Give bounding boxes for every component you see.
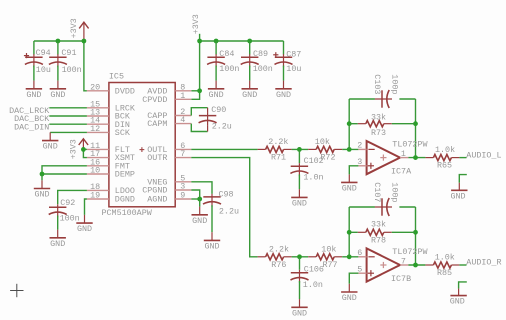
junction rail +3V3 arrow <box>82 39 87 44</box>
svg-text:GND: GND <box>276 90 291 100</box>
pin 16 FMT of IC5 <box>87 157 130 171</box>
svg-text:C91: C91 <box>61 48 76 58</box>
net label DAC_LRCK <box>9 106 50 116</box>
svg-text:C84: C84 <box>219 49 234 59</box>
wire feedback right vertical B <box>415 207 417 265</box>
wire R76 to node R1 <box>292 256 309 258</box>
svg-text:C87: C87 <box>286 49 301 59</box>
wire DGND pin 19 to ground <box>85 199 87 215</box>
capacitor C91 <box>49 48 82 75</box>
wire R85 to AUDIO_R <box>459 264 466 266</box>
wire DAC_DIN to pin 14 <box>49 123 87 125</box>
power +3V3 supply symbol P2 <box>191 14 201 41</box>
wire C91 top lead <box>57 41 59 55</box>
capacitor C84 <box>207 49 239 74</box>
junction FLT XSMT +3V3 <box>81 147 86 152</box>
svg-text:DAC_DIN: DAC_DIN <box>14 122 49 132</box>
junction feedback at pin 2 <box>347 147 352 152</box>
svg-text:100p: 100p <box>389 74 399 94</box>
resistor R71 2.2k <box>258 137 292 163</box>
wire CAPP pin 2 to C90 <box>191 108 207 116</box>
pin 9 AGND of IC5 <box>147 191 191 205</box>
wire R73 right lead joint <box>392 123 416 125</box>
svg-text:10k: 10k <box>321 244 336 254</box>
wire feedback top right A <box>399 98 415 100</box>
wire non-inverting input B to ground <box>349 273 358 284</box>
wire OUTR pin 7 down to R76 <box>191 158 257 257</box>
svg-text:GND: GND <box>292 198 307 208</box>
svg-text:1: 1 <box>401 149 406 159</box>
svg-text:GND: GND <box>50 90 65 100</box>
svg-text:C106: C106 <box>304 265 324 275</box>
pin 11 FLT of IC5 <box>87 141 130 155</box>
svg-text:1.0k: 1.0k <box>435 253 455 263</box>
svg-text:2.2k: 2.2k <box>268 137 288 147</box>
svg-text:GND: GND <box>50 239 65 249</box>
net label DAC_BCK <box>14 114 50 124</box>
svg-text:IC5: IC5 <box>109 71 124 81</box>
wire op-amp B output <box>408 264 425 266</box>
node L1 junction <box>297 147 302 152</box>
ground GND below C102 <box>291 174 307 208</box>
svg-text:R76: R76 <box>271 260 286 270</box>
svg-text:DEMP: DEMP <box>115 170 135 180</box>
wire feedback left vertical A <box>348 99 350 149</box>
wire non-inverting input A to ground <box>349 166 358 175</box>
svg-text:12: 12 <box>90 124 100 134</box>
net label AUDIO_L <box>466 150 501 160</box>
svg-text:C90: C90 <box>211 105 226 115</box>
svg-text:GND: GND <box>204 241 219 251</box>
pin 5 VNEG of IC5 <box>147 173 191 187</box>
ground GND on SCK <box>42 132 58 151</box>
pin 6 OUTL of IC5 <box>147 141 191 155</box>
wire OUTL pin 6 to R71 <box>191 148 257 150</box>
wire R71 to node L1 <box>292 148 309 150</box>
wire DEMP pin 10 to ground <box>42 173 87 175</box>
junction AVDD pin 8 <box>197 88 202 93</box>
capacitor C103 100p <box>372 74 400 108</box>
sheet origin cross marker <box>10 284 23 297</box>
resistor R65 1.0k <box>425 145 459 171</box>
svg-text:GND: GND <box>34 190 49 200</box>
junction R78 left <box>347 230 352 235</box>
wire C94 top lead <box>33 41 35 55</box>
pin 12 SCK of IC5 <box>87 124 131 138</box>
pin 2 CAPP of IC5 <box>147 107 191 121</box>
svg-text:C103: C103 <box>372 74 382 94</box>
wire FLT pin 11 <box>83 148 87 150</box>
capacitor C92 <box>49 198 80 224</box>
op-amp IC7B TL072PW <box>357 247 428 284</box>
ground GND on IC7A pin 3 <box>341 174 357 193</box>
resistor R77 10k <box>308 244 342 270</box>
wire feedback top right B <box>399 206 415 208</box>
capacitor C98 <box>203 190 239 217</box>
wire feedback top left A <box>349 98 375 100</box>
wire +3V3 rail left <box>34 40 84 42</box>
svg-text:GND: GND <box>26 90 41 100</box>
svg-text:R65: R65 <box>437 161 452 171</box>
wire R73 left lead joint <box>349 123 358 125</box>
svg-text:AUDIO_L: AUDIO_L <box>466 150 501 160</box>
svg-text:19: 19 <box>90 191 100 201</box>
svg-text:7: 7 <box>180 149 185 159</box>
wire AVDD pin 8 branch <box>191 90 199 92</box>
junction FMT DEMP <box>40 172 45 177</box>
ground GND below C98 <box>204 205 220 251</box>
svg-text:1: 1 <box>180 91 185 101</box>
wire FMT pin 16 to ground <box>42 166 87 174</box>
svg-text:CPVDD: CPVDD <box>142 95 167 105</box>
svg-text:2: 2 <box>357 141 362 151</box>
wire CPGND pin 3 to ground <box>191 190 199 199</box>
capacitor C106 <box>291 257 324 290</box>
svg-text:+3V3: +3V3 <box>68 139 78 159</box>
svg-text:C94: C94 <box>36 48 51 58</box>
capacitor C94 <box>24 48 51 75</box>
svg-text:C98: C98 <box>219 190 234 200</box>
svg-text:4: 4 <box>180 115 185 125</box>
svg-text:R72: R72 <box>320 153 335 163</box>
svg-text:AUDIO_R: AUDIO_R <box>466 258 501 268</box>
svg-text:SCK: SCK <box>115 128 131 138</box>
wire R77 to op-amp inverting input B <box>342 256 358 258</box>
wire XSMT pin 17 to +3V3 <box>83 149 87 157</box>
svg-text:GND: GND <box>192 216 207 226</box>
svg-text:GND: GND <box>209 90 224 100</box>
pin 13 BCK of IC5 <box>87 108 131 122</box>
capacitor C102 <box>290 149 323 182</box>
ground GND stub near AUDIO_L <box>450 175 467 202</box>
capacitor C89 <box>241 49 273 74</box>
pin 3 CPGND of IC5 <box>142 182 191 196</box>
svg-text:33k: 33k <box>371 112 386 122</box>
svg-text:2.2k: 2.2k <box>269 244 289 254</box>
ground GND below C106 <box>291 281 307 318</box>
wire feedback top left B <box>349 206 375 208</box>
pin 18 LDOO of IC5 <box>87 182 135 196</box>
svg-text:10u: 10u <box>286 64 301 74</box>
capacitor C87 <box>273 49 301 73</box>
svg-text:TL072PW: TL072PW <box>392 247 428 257</box>
svg-text:1.0n: 1.0n <box>303 173 323 183</box>
wire feedback right vertical A <box>415 99 417 158</box>
pin 4 CAPM of IC5 <box>147 115 191 129</box>
junction R73 left <box>347 121 352 126</box>
svg-text:9: 9 <box>180 191 185 201</box>
wire SCK pin 12 to ground <box>50 131 87 133</box>
wire R72 to op-amp inverting input <box>342 148 358 150</box>
capacitor C90 <box>199 105 232 132</box>
wire C84 top lead <box>215 41 217 55</box>
svg-text:7: 7 <box>401 256 406 266</box>
ground GND on DGND <box>76 215 92 234</box>
svg-text:100n: 100n <box>219 64 239 74</box>
junction output B feedback <box>413 263 418 268</box>
ground GND below C89 <box>242 66 258 100</box>
wire C87 top lead <box>283 41 285 55</box>
svg-text:100n: 100n <box>253 64 273 74</box>
wire DAC_LRCK to pin 15 <box>49 107 87 109</box>
pin 14 DIN of IC5 <box>87 116 130 130</box>
svg-text:1.0k: 1.0k <box>435 145 455 155</box>
svg-text:R73: R73 <box>371 128 386 138</box>
junction output A feedback <box>413 155 418 160</box>
svg-text:100p: 100p <box>389 182 399 202</box>
svg-text:2.2u: 2.2u <box>219 207 239 217</box>
ground GND below C94 <box>26 66 42 100</box>
svg-text:10k: 10k <box>315 137 330 147</box>
wire DAC_BCK to pin 13 <box>49 115 87 117</box>
ground GND below C92 <box>50 216 66 249</box>
wire LDOO pin 18 to C92 <box>58 190 87 204</box>
wire op-amp A output <box>408 157 425 159</box>
wire feedback left vertical B <box>348 207 350 257</box>
wire R78 right lead joint <box>392 231 416 233</box>
svg-text:33k: 33k <box>371 220 386 230</box>
wire +3V3 rail middle <box>200 40 284 42</box>
svg-text:CAPM: CAPM <box>147 119 167 129</box>
svg-text:TL072PW: TL072PW <box>392 140 428 150</box>
svg-text:GND: GND <box>77 224 92 234</box>
wire R78 left lead joint <box>349 231 358 233</box>
svg-text:100n: 100n <box>62 65 82 75</box>
capacitor C107 100p <box>372 182 400 216</box>
pin 20 DVDD of IC5 <box>87 82 135 96</box>
power +3V3 supply symbol P3 on FLT <box>68 139 88 160</box>
svg-text:GND: GND <box>342 183 357 193</box>
op-amp IC5 PCM5100APW DAC box <box>102 71 176 218</box>
wire R65 to AUDIO_L <box>459 157 466 159</box>
ground GND below C91 <box>50 66 66 100</box>
resistor R76 2.2k <box>258 244 292 270</box>
junction rail C91 <box>56 39 61 44</box>
ground GND on IC7B pin 5 <box>341 284 357 303</box>
svg-text:20: 20 <box>90 82 100 92</box>
junction rail2 C89 <box>247 39 252 44</box>
svg-text:IC7A: IC7A <box>391 166 412 176</box>
svg-text:10: 10 <box>90 166 100 176</box>
ground GND on FMT DEMP <box>34 174 50 200</box>
svg-text:IC7B: IC7B <box>391 274 411 284</box>
ground GND on AGND <box>192 199 208 226</box>
junction R73 right <box>413 121 418 126</box>
ground GND stub near AUDIO_R <box>450 282 467 307</box>
svg-text:AGND: AGND <box>147 195 167 205</box>
svg-text:6: 6 <box>357 248 362 258</box>
resistor R73 33k <box>358 112 392 138</box>
svg-text:GND: GND <box>292 308 307 318</box>
svg-text:100n: 100n <box>60 214 80 224</box>
wire +3V3 down to DVDD pin 20 <box>84 41 87 91</box>
power +3V3 supply symbol P1 <box>69 18 88 41</box>
svg-text:GND: GND <box>43 142 58 152</box>
op-amp IC7A TL072PW <box>357 140 428 177</box>
svg-text:PCM5100APW: PCM5100APW <box>102 208 153 218</box>
svg-text:DVDD: DVDD <box>115 86 135 96</box>
wire CAPM pin 4 to C90 <box>191 124 207 132</box>
wire AGND pin 9 <box>191 198 199 200</box>
svg-text:GND: GND <box>242 90 257 100</box>
wire VNEG pin 5 to C98 <box>191 182 212 194</box>
pin 19 DGND of IC5 <box>87 191 135 205</box>
pin 10 DEMP of IC5 <box>87 166 135 180</box>
junction CPGND AGND <box>197 197 202 202</box>
svg-text:R71: R71 <box>271 153 286 163</box>
svg-text:+3V3: +3V3 <box>69 18 79 38</box>
svg-text:10u: 10u <box>36 65 51 75</box>
net label DAC_DIN <box>14 122 49 132</box>
resistor R72 10k <box>308 137 342 163</box>
svg-text:+3V3: +3V3 <box>191 14 201 34</box>
pin 8 AVDD of IC5 <box>147 82 191 96</box>
junction rail2 left <box>197 39 202 44</box>
junction feedback at pin 6 <box>347 254 352 259</box>
pin 1 CPVDD of IC5 <box>142 91 191 105</box>
svg-text:1.0n: 1.0n <box>303 280 323 290</box>
resistor R85 1.0k <box>425 253 459 279</box>
node R1 junction <box>297 254 302 259</box>
svg-text:DGND: DGND <box>115 195 135 205</box>
junction R78 right <box>413 230 418 235</box>
svg-text:R85: R85 <box>437 268 452 278</box>
pin 17 XSMT of IC5 <box>87 149 135 163</box>
pin 15 LRCK of IC5 <box>87 99 136 113</box>
svg-text:GND: GND <box>450 297 465 307</box>
ground GND below C84 <box>208 66 224 100</box>
ground GND below C87 <box>275 66 291 100</box>
junction rail2 C84 <box>214 39 219 44</box>
svg-text:R77: R77 <box>323 260 338 270</box>
svg-text:GND: GND <box>450 191 465 201</box>
svg-text:C107: C107 <box>372 182 382 202</box>
svg-text:R78: R78 <box>371 236 386 246</box>
net label AUDIO_R <box>466 258 501 268</box>
wire +3V3 down to AVDD CPVDD <box>191 41 199 99</box>
svg-text:C89: C89 <box>253 49 268 59</box>
svg-text:C92: C92 <box>60 198 75 208</box>
wire C89 top lead <box>249 41 251 55</box>
svg-text:GND: GND <box>342 293 357 303</box>
svg-text:2.2u: 2.2u <box>212 122 232 132</box>
resistor R78 33k <box>358 220 392 246</box>
svg-text:OUTR: OUTR <box>147 153 167 163</box>
pin 7 OUTR of IC5 <box>147 149 191 163</box>
